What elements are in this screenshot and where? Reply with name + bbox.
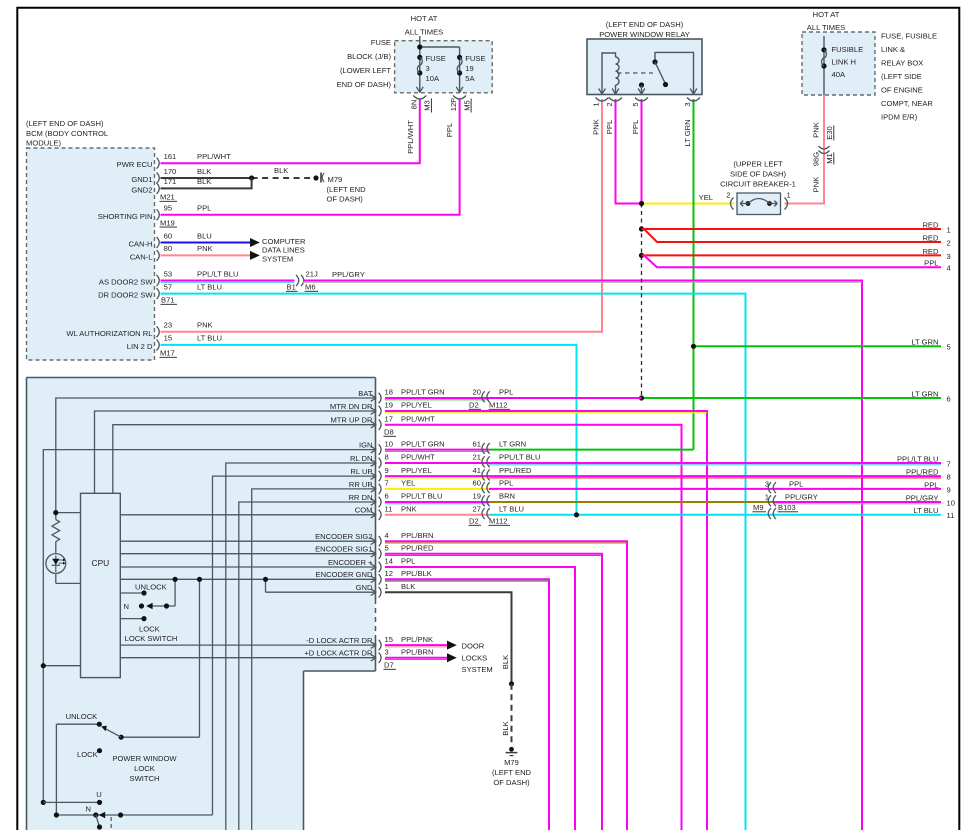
svg-text:2: 2: [726, 191, 730, 200]
svg-text:95: 95: [164, 204, 172, 213]
svg-text:BLK: BLK: [274, 166, 288, 175]
svg-text:21: 21: [473, 453, 481, 462]
svg-text:E30: E30: [825, 126, 834, 140]
svg-text:M6: M6: [305, 283, 316, 292]
svg-text:D8: D8: [384, 428, 394, 437]
svg-text:M79: M79: [504, 758, 519, 767]
svg-text:RR DN: RR DN: [348, 493, 372, 502]
svg-text:LT BLU: LT BLU: [913, 506, 938, 515]
svg-text:8: 8: [947, 473, 951, 482]
svg-text:41: 41: [473, 466, 481, 475]
svg-text:B1: B1: [287, 283, 296, 292]
svg-text:YEL: YEL: [401, 479, 415, 488]
svg-text:DATA LINES: DATA LINES: [262, 246, 305, 255]
svg-text:WL AUTHORIZATION RL: WL AUTHORIZATION RL: [66, 329, 152, 338]
svg-text:RL DN: RL DN: [350, 454, 373, 463]
svg-text:PPL/RED: PPL/RED: [499, 466, 532, 475]
svg-text:(LEFT END OF DASH): (LEFT END OF DASH): [26, 119, 104, 128]
svg-text:MTR UP DR: MTR UP DR: [330, 416, 373, 425]
svg-text:GND: GND: [356, 583, 373, 592]
svg-text:8: 8: [385, 453, 389, 462]
svg-text:(LOWER LEFT: (LOWER LEFT: [340, 66, 391, 75]
svg-text:9: 9: [385, 466, 389, 475]
svg-text:YEL: YEL: [699, 193, 713, 202]
svg-text:BAT: BAT: [358, 389, 373, 398]
svg-text:B103: B103: [778, 503, 796, 512]
svg-text:10: 10: [385, 439, 393, 448]
svg-text:FUSIBLE: FUSIBLE: [832, 45, 864, 54]
svg-text:-D LOCK ACTR DR: -D LOCK ACTR DR: [306, 636, 373, 645]
svg-text:9: 9: [947, 485, 951, 494]
svg-text:20: 20: [473, 388, 481, 397]
svg-text:LT GRN: LT GRN: [683, 119, 692, 146]
svg-text:ALL TIMES: ALL TIMES: [807, 23, 845, 32]
svg-text:M79: M79: [328, 175, 343, 184]
svg-text:CAN-L: CAN-L: [130, 252, 153, 261]
svg-text:HOT AT: HOT AT: [411, 14, 438, 23]
svg-text:COMPUTER: COMPUTER: [262, 237, 306, 246]
svg-text:8N: 8N: [409, 100, 418, 110]
svg-text:M3: M3: [423, 100, 432, 111]
svg-text:PPL/WHT: PPL/WHT: [401, 453, 435, 462]
svg-text:UNLOCK: UNLOCK: [135, 583, 167, 592]
svg-text:PNK: PNK: [197, 321, 213, 330]
svg-text:LOCK SWITCH: LOCK SWITCH: [125, 634, 178, 643]
svg-text:19: 19: [473, 492, 481, 501]
svg-text:OF ENGINE: OF ENGINE: [881, 86, 923, 95]
svg-text:LT GRN: LT GRN: [911, 389, 938, 398]
svg-text:40A: 40A: [832, 70, 846, 79]
svg-text:AS DOOR2 SW: AS DOOR2 SW: [99, 278, 153, 287]
svg-text:BLK: BLK: [401, 582, 415, 591]
svg-text:RED: RED: [922, 233, 939, 242]
svg-text:1: 1: [947, 225, 951, 234]
svg-text:5: 5: [631, 102, 640, 106]
svg-text:3: 3: [947, 252, 951, 261]
svg-text:11: 11: [947, 511, 955, 520]
svg-text:PPL/WHT: PPL/WHT: [197, 152, 231, 161]
svg-text:M1: M1: [825, 153, 834, 164]
svg-text:15: 15: [385, 635, 393, 644]
svg-text:10A: 10A: [426, 74, 440, 83]
svg-text:(LEFT END: (LEFT END: [327, 185, 367, 194]
svg-text:LT BLU: LT BLU: [197, 334, 222, 343]
svg-text:5A: 5A: [465, 74, 475, 83]
svg-text:LINK &: LINK &: [881, 45, 905, 54]
svg-text:PPL: PPL: [924, 480, 938, 489]
svg-text:BLK: BLK: [501, 655, 510, 669]
svg-text:UNLOCK: UNLOCK: [66, 712, 98, 721]
svg-text:4: 4: [947, 264, 951, 273]
svg-text:PNK: PNK: [812, 122, 821, 138]
svg-text:M17: M17: [160, 349, 175, 358]
svg-text:RL UP: RL UP: [350, 467, 372, 476]
svg-text:POWER WINDOW: POWER WINDOW: [112, 754, 177, 763]
svg-text:COMPT, NEAR: COMPT, NEAR: [881, 99, 933, 108]
svg-text:12: 12: [385, 569, 393, 578]
svg-text:3: 3: [683, 102, 692, 106]
svg-text:80: 80: [164, 244, 172, 253]
svg-text:CAN-H: CAN-H: [128, 240, 152, 249]
svg-text:17: 17: [385, 414, 393, 423]
svg-text:RED: RED: [922, 220, 939, 229]
svg-text:PPL/LT GRN: PPL/LT GRN: [401, 439, 445, 448]
svg-text:N: N: [86, 805, 91, 814]
svg-text:SHORTING PIN: SHORTING PIN: [98, 212, 153, 221]
svg-text:1: 1: [787, 191, 791, 200]
svg-text:11: 11: [385, 505, 393, 514]
svg-text:COM: COM: [355, 506, 373, 515]
svg-text:15: 15: [164, 334, 172, 343]
svg-text:6: 6: [947, 394, 951, 403]
svg-text:ALL TIMES: ALL TIMES: [405, 28, 443, 37]
svg-text:DR DOOR2 SW: DR DOOR2 SW: [98, 291, 153, 300]
svg-text:53: 53: [164, 269, 172, 278]
svg-text:OF DASH): OF DASH): [493, 778, 530, 787]
svg-text:1: 1: [765, 493, 769, 502]
svg-text:PPL: PPL: [197, 204, 211, 213]
svg-text:BLOCK (J/B): BLOCK (J/B): [347, 52, 391, 61]
svg-text:LINK H: LINK H: [832, 58, 856, 67]
svg-text:GND2: GND2: [131, 185, 152, 194]
svg-text:BLK: BLK: [501, 721, 510, 735]
svg-text:POWER WINDOW RELAY: POWER WINDOW RELAY: [599, 30, 690, 39]
svg-text:PPL/PNK: PPL/PNK: [401, 635, 433, 644]
svg-text:PWR ECU: PWR ECU: [117, 160, 153, 169]
svg-text:(LEFT END: (LEFT END: [492, 768, 532, 777]
svg-text:12P: 12P: [449, 98, 458, 112]
svg-text:RED: RED: [922, 247, 939, 256]
svg-text:BLK: BLK: [197, 167, 211, 176]
svg-text:CIRCUIT BREAKER-1: CIRCUIT BREAKER-1: [720, 180, 796, 189]
svg-text:61: 61: [473, 439, 481, 448]
svg-text:6: 6: [385, 492, 389, 501]
svg-text:2: 2: [947, 238, 951, 247]
svg-text:5: 5: [385, 543, 389, 552]
svg-text:PPL/WHT: PPL/WHT: [406, 120, 415, 154]
svg-text:IPDM E/R): IPDM E/R): [881, 113, 918, 122]
svg-text:END OF DASH): END OF DASH): [337, 80, 392, 89]
svg-text:PPL/LT BLU: PPL/LT BLU: [401, 492, 443, 501]
svg-text:HOT AT: HOT AT: [813, 10, 840, 19]
svg-text:PNK: PNK: [401, 505, 417, 514]
svg-text:3: 3: [385, 647, 389, 656]
svg-text:60: 60: [164, 231, 172, 240]
svg-text:GND1: GND1: [131, 175, 152, 184]
svg-text:DOOR: DOOR: [462, 642, 485, 651]
svg-text:171: 171: [164, 177, 177, 186]
svg-text:(LEFT END OF DASH): (LEFT END OF DASH): [606, 20, 684, 29]
svg-text:PPL/YEL: PPL/YEL: [401, 466, 432, 475]
svg-text:BRN: BRN: [499, 492, 515, 501]
svg-text:LIN 2 D: LIN 2 D: [127, 342, 153, 351]
svg-text:3: 3: [765, 479, 769, 488]
svg-text:7: 7: [947, 459, 951, 468]
svg-text:(LEFT SIDE: (LEFT SIDE: [881, 72, 922, 81]
svg-text:MODULE): MODULE): [26, 139, 61, 148]
svg-text:PPL/WHT: PPL/WHT: [401, 414, 435, 423]
svg-text:98G: 98G: [812, 152, 821, 166]
svg-text:PPL: PPL: [631, 120, 640, 134]
svg-text:SYSTEM: SYSTEM: [462, 665, 493, 674]
svg-text:19: 19: [385, 401, 393, 410]
svg-text:PPL/LT BLU: PPL/LT BLU: [499, 453, 541, 462]
svg-text:FUSE: FUSE: [426, 54, 446, 63]
svg-text:M5: M5: [462, 100, 471, 111]
svg-text:PPL/BRN: PPL/BRN: [401, 647, 434, 656]
svg-text:PPL: PPL: [499, 479, 513, 488]
svg-text:CPU: CPU: [92, 558, 110, 568]
svg-text:1: 1: [592, 102, 601, 106]
svg-text:RELAY BOX: RELAY BOX: [881, 59, 923, 68]
svg-text:MTR DN DR: MTR DN DR: [330, 402, 373, 411]
svg-text:D7: D7: [384, 661, 394, 670]
svg-text:B71: B71: [161, 296, 175, 305]
svg-text:ENCODER +: ENCODER +: [328, 558, 373, 567]
svg-text:N: N: [124, 602, 129, 611]
svg-text:2: 2: [605, 102, 614, 106]
svg-text:PPL/GRY: PPL/GRY: [785, 493, 818, 502]
svg-text:PPL: PPL: [924, 259, 938, 268]
svg-text:19: 19: [465, 64, 473, 73]
svg-text:PPL/RED: PPL/RED: [401, 543, 434, 552]
svg-text:21J: 21J: [306, 270, 318, 279]
svg-text:PPL: PPL: [789, 479, 803, 488]
svg-text:PPL/BRN: PPL/BRN: [401, 531, 434, 540]
svg-text:170: 170: [164, 167, 177, 176]
svg-text:M112: M112: [489, 517, 507, 526]
svg-text:PPL: PPL: [499, 388, 513, 397]
svg-text:U: U: [96, 790, 101, 799]
svg-text:RR UP: RR UP: [349, 480, 373, 489]
svg-text:SWITCH: SWITCH: [130, 774, 160, 783]
svg-text:161: 161: [164, 152, 177, 161]
svg-text:BCM (BODY CONTROL: BCM (BODY CONTROL: [26, 129, 108, 138]
svg-text:27: 27: [473, 505, 481, 514]
svg-text:LT GRN: LT GRN: [911, 338, 938, 347]
svg-text:57: 57: [164, 282, 172, 291]
svg-text:PPL/YEL: PPL/YEL: [401, 401, 432, 410]
svg-text:5: 5: [947, 343, 951, 352]
svg-text:BLU: BLU: [197, 231, 212, 240]
svg-text:PPL/GRY: PPL/GRY: [332, 270, 365, 279]
svg-text:PPL/GRY: PPL/GRY: [906, 493, 939, 502]
svg-text:M9: M9: [753, 503, 764, 512]
svg-text:PPL/LT BLU: PPL/LT BLU: [197, 269, 239, 278]
svg-text:OF DASH): OF DASH): [327, 195, 364, 204]
svg-text:LT BLU: LT BLU: [499, 505, 524, 514]
svg-text:ENCODER SIG2: ENCODER SIG2: [315, 532, 372, 541]
svg-text:PPL/RED: PPL/RED: [906, 468, 939, 477]
svg-text:PPL: PPL: [445, 123, 454, 137]
svg-text:IGN: IGN: [359, 441, 373, 450]
svg-text:D2: D2: [469, 401, 479, 410]
svg-text:+D LOCK ACTR DR: +D LOCK ACTR DR: [304, 649, 373, 658]
svg-text:ENCODER SIG1: ENCODER SIG1: [315, 545, 372, 554]
svg-text:23: 23: [164, 321, 172, 330]
svg-text:3: 3: [426, 64, 430, 73]
svg-text:LT BLU: LT BLU: [197, 282, 222, 291]
svg-text:FUSE: FUSE: [371, 38, 391, 47]
svg-text:14: 14: [385, 557, 393, 566]
svg-text:BLK: BLK: [197, 177, 211, 186]
svg-text:PPL/BLK: PPL/BLK: [401, 569, 432, 578]
svg-text:PPL/LT GRN: PPL/LT GRN: [401, 388, 445, 397]
svg-text:18: 18: [385, 388, 393, 397]
svg-text:SYSTEM: SYSTEM: [262, 254, 293, 263]
svg-text:PNK: PNK: [592, 119, 601, 135]
svg-text:LOCK: LOCK: [139, 625, 160, 634]
svg-text:7: 7: [385, 479, 389, 488]
svg-text:ENCODER GND: ENCODER GND: [316, 570, 373, 579]
svg-text:LOCK: LOCK: [77, 750, 98, 759]
svg-text:FUSE: FUSE: [465, 54, 485, 63]
svg-text:M112: M112: [489, 401, 507, 410]
svg-text:PNK: PNK: [197, 244, 213, 253]
svg-text:PPL: PPL: [605, 120, 614, 134]
svg-text:SIDE OF DASH): SIDE OF DASH): [730, 169, 787, 178]
svg-text:PNK: PNK: [812, 177, 821, 193]
svg-text:FUSE, FUSIBLE: FUSE, FUSIBLE: [881, 32, 937, 41]
svg-text:M21: M21: [160, 193, 175, 202]
svg-text:D2: D2: [469, 517, 479, 526]
svg-text:LOCKS: LOCKS: [462, 653, 488, 662]
svg-text:PPL/LT BLU: PPL/LT BLU: [897, 454, 939, 463]
svg-text:1: 1: [385, 582, 389, 591]
svg-text:4: 4: [385, 531, 389, 540]
svg-text:LT GRN: LT GRN: [499, 439, 526, 448]
svg-text:PPL: PPL: [401, 557, 415, 566]
svg-text:(UPPER LEFT: (UPPER LEFT: [733, 159, 783, 168]
svg-text:60: 60: [473, 479, 481, 488]
svg-text:10: 10: [947, 498, 955, 507]
svg-text:LOCK: LOCK: [134, 764, 155, 773]
svg-text:M19: M19: [160, 218, 175, 227]
